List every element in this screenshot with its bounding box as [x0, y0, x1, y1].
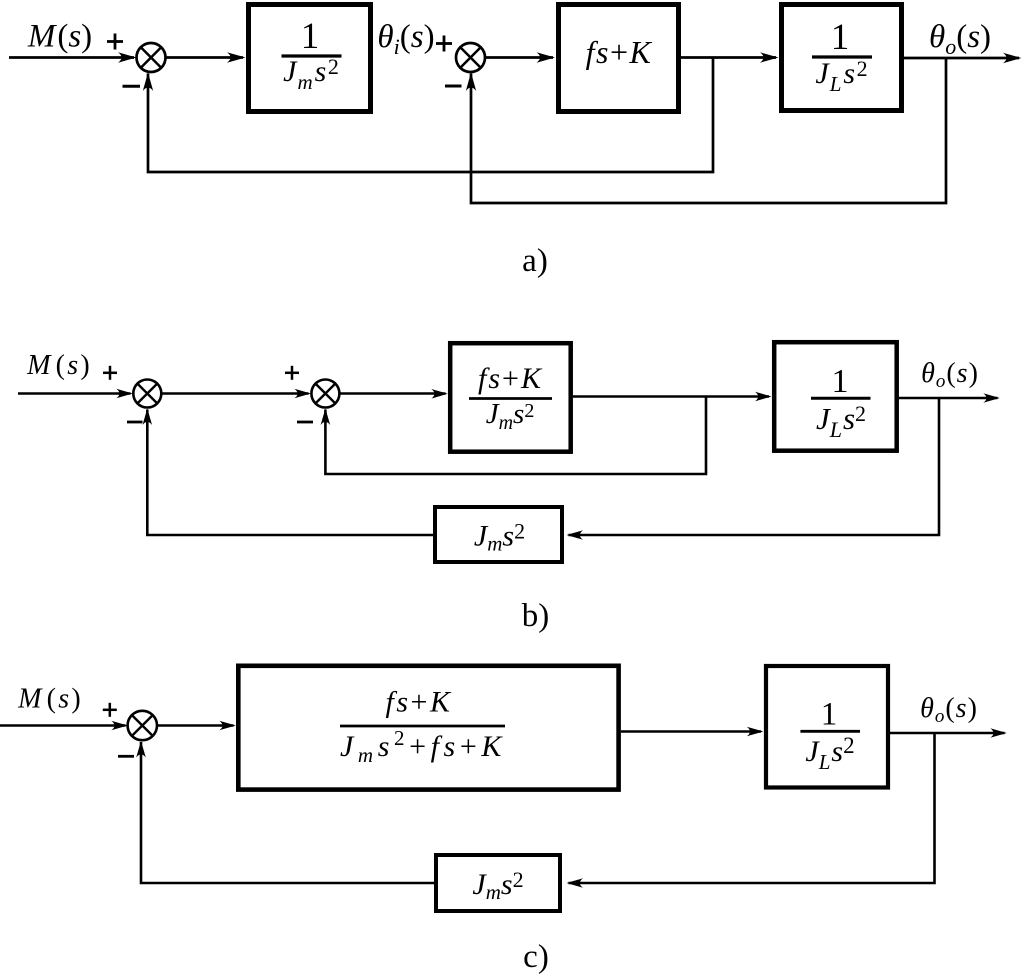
wire: output theta_o(s) part c — [890, 728, 1007, 738]
plus sign at S2 — [436, 36, 452, 52]
svg-text:a): a) — [522, 243, 548, 279]
wire: S1c to big block — [157, 721, 236, 731]
plus sign at S1b — [103, 366, 117, 380]
wire: S1 to block 1/(Jm s^2) — [166, 52, 246, 62]
block A1: 1/(Jm s^2) — [249, 5, 371, 112]
svg-text:1: 1 — [832, 363, 849, 400]
block C1: (fs+K)/(Jm s^2+fs+K) — [238, 666, 618, 790]
svg-text:b): b) — [522, 598, 550, 634]
block B1: (fs+K)/(Jm s^2) — [450, 343, 571, 452]
svg-text:θi(s): θi(s) — [377, 19, 434, 59]
minus sign at S2 — [445, 85, 462, 88]
svg-text:JLs2: JLs2 — [816, 401, 866, 442]
block B2: 1/(JL s^2) part b — [774, 342, 897, 451]
plus sign at S1 — [107, 34, 123, 50]
svg-text:c): c) — [523, 939, 549, 975]
svg-text:θo(s): θo(s) — [921, 358, 979, 392]
minus sign at S1b — [127, 421, 143, 424]
summing junction S1 — [137, 43, 166, 72]
wire: S2b to block (fs+K)/(Jm s^2) — [339, 389, 447, 399]
svg-text:fs+K: fs+K — [478, 362, 543, 395]
svg-text:1: 1 — [831, 17, 850, 58]
wire: Jm s^2 block output to S1b — [143, 409, 434, 536]
block C3: Jm s^2 feedback block part c — [436, 855, 560, 911]
svg-text:θo(s): θo(s) — [920, 693, 978, 727]
summing junction S2b — [311, 380, 339, 408]
block B3: Jm s^2 feedback block part b — [435, 507, 562, 562]
wire: feedback from theta_o to S2 — [466, 58, 946, 203]
summing junction S2 — [456, 43, 485, 72]
wire: input M(s) into summing junction S1c — [0, 721, 128, 731]
svg-text:Jms2: Jms2 — [486, 398, 535, 434]
minus sign at S1c — [118, 755, 134, 758]
svg-text:1: 1 — [301, 16, 320, 57]
block C2: 1/(JL s^2) part c — [766, 666, 888, 788]
summing junction S1c — [128, 711, 157, 740]
minus sign at S2b — [297, 421, 313, 424]
summing junction S1b — [133, 380, 161, 408]
svg-text:Jms2: Jms2 — [283, 54, 340, 94]
svg-text:M(s): M(s) — [26, 350, 92, 381]
svg-text:JLs2: JLs2 — [805, 733, 854, 774]
svg-text:Jms2: Jms2 — [472, 867, 523, 904]
plus sign at S1c — [103, 703, 117, 717]
svg-text:fs+K: fs+K — [586, 34, 653, 70]
wire: big block to block 1/(JL s^2) part c — [621, 727, 763, 737]
svg-text:M(s): M(s) — [17, 684, 83, 715]
wire: block fs+K to block 1/(JL s^2) — [681, 52, 779, 62]
wire: output theta_o(s) part a — [904, 53, 1022, 63]
block A2: fs+K — [559, 5, 679, 112]
svg-text:Jms2: Jms2 — [474, 519, 525, 556]
svg-text:fs+K: fs+K — [386, 686, 453, 719]
svg-text:1: 1 — [821, 696, 838, 732]
wire: input M(s) into summing junction S1b — [18, 389, 133, 399]
svg-text:θo(s): θo(s) — [929, 19, 991, 59]
wire: S1b to S2b — [161, 389, 311, 399]
wire: inner feedback B1 output to S2b — [321, 397, 706, 475]
wire: block B1 to block 1/(JL s^2) part b — [573, 392, 772, 402]
svg-text:JLs2: JLs2 — [815, 56, 868, 96]
wire: theta_o tap down to Jm s^2 block part c — [567, 733, 935, 888]
plus sign at S2b — [285, 366, 299, 380]
wire: theta_o tap down to Jm s^2 block part b — [567, 398, 940, 540]
wire: input M(s) into summing junction S1 — [9, 52, 137, 62]
svg-text:M(s): M(s) — [27, 19, 92, 55]
wire: output theta_o(s) part b — [899, 393, 1000, 403]
block A3: 1/(JL s^2) — [782, 5, 902, 111]
minus sign at S1 — [123, 85, 141, 88]
svg-text:Jms2+fs+K: Jms2+fs+K — [340, 726, 506, 767]
wire: Jm s^2 block output to S1c — [136, 741, 434, 883]
wire: S2 to block fs+K — [485, 52, 555, 62]
wire: feedback from fs+K output to S1 — [143, 58, 713, 173]
